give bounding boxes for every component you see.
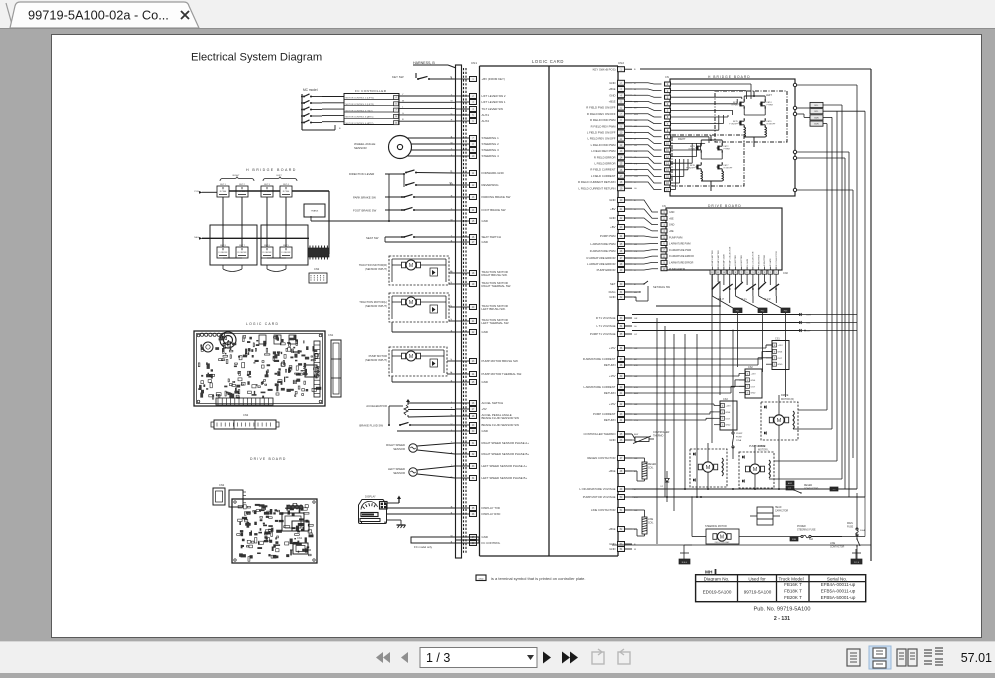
- svg-text:GND: GND: [669, 224, 675, 227]
- svg-text:3: 3: [722, 412, 723, 414]
- svg-text:GND: GND: [609, 542, 615, 546]
- svg-text:M: M: [409, 354, 414, 360]
- svg-text:SET/DIAG SW: SET/DIAG SW: [653, 285, 671, 289]
- CN2 terminal - R ARMATURE CURRENT: [618, 357, 625, 362]
- CN1 terminal 24 - PUMP MOTOR THERMAL SW.: [455, 373, 470, 375]
- CN2 terminal - LINE CONTACTOR: [618, 508, 625, 513]
- svg-text:R ARMATURE ERROR: R ARMATURE ERROR: [669, 255, 694, 258]
- svg-text:57.01: 57.01: [961, 651, 992, 665]
- wire CN2 to drive board PUMP PWM: [632, 236, 658, 237]
- wire wheel angle sensor phase 1: [407, 137, 455, 139]
- CN1 terminal 29 - BRAKE FLUID SENSOR SW: [455, 424, 470, 426]
- svg-text:GND: GND: [726, 425, 731, 427]
- CN1 terminal 6 - AUX2: [455, 120, 470, 122]
- svg-text:REGEN: REGEN: [804, 485, 813, 487]
- right vertical bus bundle: [826, 124, 828, 410]
- svg-text:RIGHT THERMAL SW.: RIGHT THERMAL SW.: [482, 284, 512, 288]
- svg-text:G: G: [402, 113, 404, 115]
- CN1 terminal 31 - RIGHT SPEED SENSOR PHASE A+: [455, 442, 470, 444]
- svg-text:AUX1: AUX1: [482, 113, 490, 117]
- CN2 terminal - PUMP ERROR: [618, 268, 625, 273]
- svg-text:CN2: CN2: [243, 413, 249, 417]
- wire MC model to bus: [302, 129, 335, 131]
- svg-text:CN1: CN1: [328, 333, 334, 337]
- H bridge board right outline: [670, 79, 795, 196]
- svg-text:FOOT BRAKE SW: FOOT BRAKE SW: [482, 208, 506, 212]
- svg-text:LOGIC CARD: LOGIC CARD: [532, 59, 564, 64]
- svg-text:CONTACTOR: CONTACTOR: [830, 546, 845, 549]
- svg-text:FET8: FET8: [690, 165, 696, 167]
- svg-text:NEG: NEG: [194, 237, 199, 239]
- svg-text:LEFT BRUSH SW.: LEFT BRUSH SW.: [482, 307, 506, 311]
- drive board CN2 bottom connector: [710, 270, 715, 274]
- H bridge CN internal stubs: [671, 83, 751, 85]
- svg-text:B/W: B/W: [634, 434, 639, 436]
- svg-text:F PWM: F PWM: [724, 149, 730, 151]
- logic card toroid: [220, 332, 236, 348]
- CN1 terminal 38 - FC CONTROL: [455, 542, 470, 544]
- CN2 terminal - +15V: [618, 346, 625, 351]
- svg-text:L EMITTER: L EMITTER: [735, 255, 737, 266]
- CN2 terminal - R T1 VOLTAGE: [618, 316, 625, 321]
- svg-text:MOTOR L: MOTOR L: [758, 449, 770, 452]
- svg-text:GND: GND: [479, 578, 484, 580]
- svg-text:GND: GND: [482, 219, 488, 223]
- FC controller row MOTOR CONTROL 1 (LIFT1): [344, 98, 399, 100]
- svg-text:L FIELD REV ON/OFF: L FIELD REV ON/OFF: [587, 137, 615, 141]
- svg-text:BRAKE FLUID SW: BRAKE FLUID SW: [359, 424, 383, 428]
- CN2 terminal - RETURN: [618, 363, 625, 368]
- display wire and arrow: [387, 502, 400, 504]
- svg-text:R PWM: R PWM: [689, 149, 696, 151]
- power transistor T1L: [735, 275, 737, 290]
- svg-text:DISPLAY RXD: DISPLAY RXD: [482, 512, 501, 516]
- svg-text:F ON/OFF: F ON/OFF: [282, 252, 292, 254]
- svg-text:SENSOR: SENSOR: [393, 447, 405, 451]
- FET3 FET4 symbols: [739, 102, 741, 107]
- svg-text:1: 1: [747, 393, 748, 395]
- wire CN2 to drive board +BE: [632, 227, 658, 231]
- wire wheel angle sensor phase 3: [411, 149, 455, 151]
- H bridge sub-box right half: [210, 225, 257, 265]
- CN2 terminal - R FIELD REV ON/OFF: [618, 111, 625, 116]
- svg-text:FORWARD-GND: FORWARD-GND: [482, 171, 504, 175]
- svg-text:(SENSOR INPUT): (SENSOR INPUT): [365, 267, 387, 271]
- svg-text:R EMITTER: R EMITTER: [758, 254, 760, 266]
- svg-text:SENSOR: SENSOR: [354, 146, 368, 150]
- CN1 terminal 35 - DISPLAY TXD: [455, 507, 470, 509]
- CN2 terminal - L FIELD FWD ON/OFF: [618, 130, 625, 135]
- FC model only bar: [411, 537, 479, 543]
- svg-text:L GATE: L GATE: [746, 258, 749, 266]
- CN1 terminal 13 - PARKING BRAKE SW: [455, 196, 470, 198]
- svg-text:+5V: +5V: [482, 407, 487, 411]
- drive board transformer: [282, 513, 304, 531]
- svg-text:FUSE: FUSE: [736, 437, 742, 439]
- svg-text:TRACTION MOTOR(R): TRACTION MOTOR(R): [359, 263, 387, 267]
- wire CN2 to drive board R ARMATURE PWM: [632, 250, 658, 251]
- svg-text:RIGHT: RIGHT: [233, 175, 240, 177]
- drive board pin vertical wires: [711, 267, 713, 271]
- CN1 terminal 28 - ACCEL PEDAL ANGLE BRAKE FLUID SENSOR SW: [455, 415, 470, 417]
- svg-text:CN1: CN1: [471, 61, 477, 65]
- svg-text:R FIELD ERROR: R FIELD ERROR: [594, 155, 616, 159]
- wire wheel angle sensor phase 4: [407, 155, 455, 157]
- svg-text:TILT LEVER SW: TILT LEVER SW: [482, 107, 504, 111]
- svg-text:R ARMATURE CURRENT: R ARMATURE CURRENT: [583, 357, 616, 361]
- svg-text:Diagram No.: Diagram No.: [704, 576, 730, 581]
- svg-text:MOTOR CONTROL 3 (ATT1): MOTOR CONTROL 3 (ATT1): [346, 116, 374, 119]
- svg-text:CAPACITOR: CAPACITOR: [775, 510, 789, 513]
- FET8 FET7 symbols: [696, 165, 698, 170]
- svg-text:RIGHT: RIGHT: [678, 138, 686, 141]
- CN2 terminal - PUMP MOTOR VOLTAGE: [618, 495, 625, 500]
- svg-text:SEAT SW: SEAT SW: [366, 236, 379, 240]
- svg-text:4: 4: [747, 373, 748, 375]
- rotate icons (disabled): [592, 649, 630, 664]
- svg-text:99719-5A100-02a - Co...: 99719-5A100-02a - Co...: [28, 8, 169, 23]
- svg-text:R PWM: R PWM: [220, 191, 227, 193]
- svg-text:P.O.S: P.O.S: [854, 562, 860, 564]
- CN2 terminal - GND: [618, 198, 625, 203]
- svg-text:R ARMATURE PWM: R ARMATURE PWM: [590, 249, 616, 253]
- CN1 terminal 21 - TRACTION MOTOR LEFT THERMAL SW.: [455, 320, 470, 322]
- svg-text:ACCELERATOR: ACCELERATOR: [366, 404, 387, 408]
- svg-text:L FIELD CURRENT RETURN: L FIELD CURRENT RETURN: [579, 186, 616, 190]
- svg-text:R FIELD CURRENT: R FIELD CURRENT: [590, 168, 615, 172]
- wire CN2 to drive board L ARMATURE PWM: [632, 243, 658, 246]
- svg-text:EFB5A-00011-up: EFB5A-00011-up: [821, 589, 856, 594]
- svg-text:GND: GND: [669, 211, 675, 214]
- CN2 terminal - GND: [618, 438, 625, 443]
- wire CN2 to drive board PUMP ERROR: [632, 269, 658, 270]
- svg-text:GND: GND: [609, 93, 615, 97]
- CN2 terminal - +B1E: [618, 469, 625, 474]
- svg-text:L FIELD CURRENT: L FIELD CURRENT: [591, 174, 616, 178]
- diode D2: [665, 478, 669, 482]
- CN2 terminal - GND: [618, 93, 625, 98]
- svg-text:GND: GND: [609, 547, 615, 551]
- svg-text:MOTOR (R): MOTOR (R): [781, 398, 794, 401]
- svg-text:50A: 50A: [809, 538, 814, 541]
- long bus wire row 2: [632, 496, 865, 498]
- svg-text:R ARMATURE ERROR: R ARMATURE ERROR: [586, 256, 615, 260]
- CN2 terminal - L FIELD ERROR: [618, 161, 625, 166]
- svg-text:R FIELD REV PWM: R FIELD REV PWM: [591, 124, 617, 128]
- svg-text:DRIVE BOARD: DRIVE BOARD: [708, 204, 742, 208]
- svg-text:R COLLECTOR: R COLLECTOR: [776, 251, 778, 266]
- svg-text:+B1E: +B1E: [609, 469, 616, 473]
- fuse boxes F row: [733, 308, 742, 313]
- svg-text:LOGIC CARD: LOGIC CARD: [246, 322, 279, 326]
- svg-text:F ON/OFF: F ON/OFF: [219, 252, 229, 254]
- left bridge wires and inductors: [743, 96, 745, 100]
- svg-text:L COLLECTOR: L COLLECTOR: [753, 251, 755, 266]
- svg-text:2: 2: [747, 386, 748, 388]
- FET1 FET2 symbols: [696, 146, 698, 151]
- svg-text:L FIELD FWD ON/OFF: L FIELD FWD ON/OFF: [587, 131, 616, 135]
- wire CN2 to drive board R ARMATURE ERROR: [632, 256, 658, 258]
- svg-text:1: 1: [722, 425, 723, 427]
- svg-text:MOTOR CONTROL 2 (LIFT2): MOTOR CONTROL 2 (LIFT2): [346, 104, 375, 106]
- CN2 terminal - R FIELD REV PWM: [618, 124, 625, 129]
- svg-text:LEFT SPEED SENSOR PHASE B+: LEFT SPEED SENSOR PHASE B+: [482, 476, 528, 480]
- CN1 terminal 18 - TRACTION MOTOR RIGHT BRUSH SW.: [455, 272, 470, 274]
- svg-text:RIGHT SPEED SENSOR PHASE A+: RIGHT SPEED SENSOR PHASE A+: [482, 441, 530, 445]
- svg-text:M: M: [777, 418, 782, 424]
- svg-text:FET1: FET1: [690, 146, 696, 148]
- svg-text:R ON/OFF: R ON/OFF: [767, 124, 776, 126]
- first page button (disabled): [376, 652, 383, 663]
- CN2 terminal - R ARMATURE PWM: [618, 249, 625, 254]
- active document tab: [10, 2, 199, 28]
- logic card PCB: [194, 331, 325, 406]
- left H bridge lower connector: [309, 273, 327, 283]
- wires below fuse boxes: [737, 313, 739, 367]
- tab close button: [181, 11, 189, 19]
- CN2 terminal - DIAG: [618, 290, 625, 295]
- leftover tab edge: [6, 3, 13, 28]
- CN1 terminal 22 - GND: [455, 331, 470, 333]
- svg-text:PUMP PWM: PUMP PWM: [669, 236, 682, 239]
- svg-text:GND: GND: [609, 438, 615, 442]
- svg-text:MOTOR CONTROL 1 (LIFT1): MOTOR CONTROL 1 (LIFT1): [346, 98, 375, 100]
- wires CN2 to H bridge CN: [632, 83, 662, 84]
- top +B wire to right frame: [640, 68, 871, 70]
- svg-text:R PWM: R PWM: [283, 191, 290, 193]
- svg-text:CN2: CN2: [783, 272, 788, 275]
- wire FC controller to CN1 row 1: [399, 95, 455, 97]
- bottom toolbar: [0, 641, 995, 673]
- CN1 terminal 19 - TRACTION MOTOR RIGHT THERMAL SW.: [455, 283, 470, 285]
- svg-text:CN2: CN2: [314, 267, 320, 271]
- CN2 terminal - R ARMATURE ERROR: [618, 256, 625, 261]
- svg-text:M: M: [409, 263, 414, 269]
- svg-text:GNS: GNS: [778, 351, 783, 353]
- svg-text:1: 1: [774, 364, 775, 366]
- svg-text:THERMO: THERMO: [653, 435, 663, 438]
- logic card IC: [305, 365, 317, 377]
- svg-text:CONTROLLER THERMO: CONTROLLER THERMO: [584, 432, 617, 436]
- svg-text:OUT: OUT: [726, 418, 731, 420]
- CN1 terminal 2 - LIFT LEVER SW 2: [455, 95, 470, 97]
- power transistor T1R: [758, 275, 760, 290]
- svg-text:PUMP ERROR: PUMP ERROR: [669, 268, 685, 271]
- svg-text:B1R: B1R: [814, 124, 819, 126]
- svg-text:4: 4: [774, 345, 775, 347]
- svg-text:RETURN: RETURN: [604, 418, 616, 422]
- facing pages layout icon: [897, 649, 917, 666]
- svg-text:PUMP MOTOR THERMAL SW.: PUMP MOTOR THERMAL SW.: [482, 372, 523, 376]
- svg-text:PUMP MOTOR BRUSH SW.: PUMP MOTOR BRUSH SW.: [482, 359, 519, 363]
- svg-text:L FIELD FWD PWM: L FIELD FWD PWM: [591, 143, 617, 147]
- svg-text:B: B: [634, 69, 636, 71]
- H bridge output circles: [793, 83, 796, 86]
- svg-text:B: B: [339, 128, 341, 130]
- drive board CN1 connector: [292, 521, 309, 531]
- svg-text:RETURN: RETURN: [604, 363, 616, 367]
- svg-text:TRANS: TRANS: [311, 210, 319, 213]
- svg-text:LIFT LEVER SW 1: LIFT LEVER SW 1: [482, 100, 506, 104]
- svg-text:+15V: +15V: [609, 402, 616, 406]
- CN1 terminal 25 - GND: [455, 381, 470, 383]
- previous page button (disabled): [401, 652, 408, 663]
- svg-text:BRAKE FLUID SENSOR SW: BRAKE FLUID SENSOR SW: [482, 416, 520, 420]
- CN2 terminal - GND: [618, 542, 625, 547]
- CN2 terminal - GND: [618, 216, 625, 221]
- svg-text:LEFT: LEFT: [766, 94, 772, 97]
- CN2 terminal - PUMP PWM: [618, 234, 625, 239]
- svg-text:FET6: FET6: [767, 121, 773, 123]
- wires +15V to current sensors: [632, 347, 766, 349]
- drive board outline: [666, 208, 782, 270]
- svg-text:H BRIDGE BOARD: H BRIDGE BOARD: [246, 168, 297, 172]
- svg-text:REVERSING: REVERSING: [482, 183, 500, 187]
- next page button: [543, 652, 551, 664]
- svg-text:RETURN: RETURN: [604, 391, 616, 395]
- svg-text:GND: GND: [482, 535, 488, 539]
- CN1 terminal 4 - TILT LEVER SW: [455, 108, 470, 110]
- svg-text:R GATE: R GATE: [769, 258, 772, 266]
- svg-text:Truck Model: Truck Model: [779, 576, 804, 581]
- svg-text:L ARMATURE ERROR: L ARMATURE ERROR: [669, 262, 694, 265]
- CN1 terminal 9 - STEERING 3: [455, 149, 470, 151]
- traction motor gnd wire: [392, 331, 455, 333]
- CN1 terminal 10 - STEERING 4: [455, 155, 470, 157]
- svg-text:225A: 225A: [736, 439, 742, 442]
- svg-text:FUSE: FUSE: [847, 527, 854, 529]
- svg-text:F PWM: F PWM: [767, 105, 773, 107]
- CN2 terminal - +B1E: [618, 99, 625, 104]
- CN1 terminal 3 - LIFT LEVER SW 1: [455, 101, 470, 103]
- CN2 terminal - L FIELD FWD PWM: [618, 142, 625, 147]
- svg-text:Used for: Used for: [748, 576, 766, 581]
- svg-text:Electrical System Diagram: Electrical System Diagram: [191, 52, 322, 64]
- svg-text:KEY SW(+B POS): KEY SW(+B POS): [593, 67, 616, 71]
- svg-text:PUMP EMITTER: PUMP EMITTER: [712, 250, 714, 266]
- svg-text:+B1E: +B1E: [609, 87, 616, 91]
- svg-text:STEERING 4: STEERING 4: [482, 154, 500, 158]
- display ground: [387, 519, 401, 521]
- svg-text:+BV (FROM KEY): +BV (FROM KEY): [482, 77, 505, 81]
- svg-text:REGEN CONTACTOR: REGEN CONTACTOR: [587, 456, 615, 460]
- svg-text:M: M: [409, 300, 414, 306]
- B1L B2L B2R B1R terminal boxes: [810, 102, 823, 107]
- svg-text:HARNESS, B: HARNESS, B: [413, 61, 435, 65]
- CN2 terminal - R FIELD CURRENT: [618, 167, 625, 172]
- CN1 terminal 12 - REVERSING: [455, 184, 470, 186]
- svg-text:Pub. No. 99719-5A100: Pub. No. 99719-5A100: [754, 607, 811, 613]
- svg-text:LEFT SPEED SENSOR PHASE A+: LEFT SPEED SENSOR PHASE A+: [482, 464, 528, 468]
- FC controller row MOTOR CONTROL 3 (ATT1): [344, 117, 399, 119]
- svg-text:MC model: MC model: [303, 88, 318, 92]
- svg-text:AUX2: AUX2: [482, 119, 490, 123]
- CN2 terminal - R FIELD FWD ON/OFF: [618, 105, 625, 110]
- svg-text:L FIELD ERROR: L FIELD ERROR: [594, 162, 615, 166]
- CN1 terminal 15 - GND: [455, 220, 470, 222]
- svg-text:F ON/OFF: F ON/OFF: [729, 124, 738, 126]
- svg-text:FB20K T: FB20K T: [784, 595, 802, 600]
- NEG terminal: [679, 559, 690, 564]
- switch common gnd wire: [388, 174, 390, 221]
- harness B bus: [456, 65, 462, 558]
- CN1 terminal 8 - STEERING 2: [455, 143, 470, 145]
- svg-text:STEERING MOTOR: STEERING MOTOR: [705, 525, 727, 528]
- svg-text:REGEN: REGEN: [648, 464, 657, 466]
- svg-text:M: M: [706, 465, 711, 471]
- svg-text:R FIELD FWD ON/OFF: R FIELD FWD ON/OFF: [586, 106, 616, 110]
- svg-text:FB16K T: FB16K T: [784, 582, 802, 587]
- svg-text:PUMP MOTOR: PUMP MOTOR: [369, 354, 387, 358]
- svg-text:B2R: B2R: [814, 117, 819, 119]
- CN2 terminal - L FIELD REV PWM: [618, 149, 625, 154]
- svg-text:R ON/OFF: R ON/OFF: [262, 252, 272, 254]
- logic card components: [274, 337, 276, 339]
- page number combo box: [420, 648, 537, 668]
- svg-text:PUMP EMITTER: PUMP EMITTER: [718, 250, 720, 266]
- CN2 terminal - L ARMATURE CURRENT: [618, 385, 625, 390]
- svg-text:+B1E: +B1E: [609, 527, 616, 531]
- CN1 terminal 27 - +5V: [455, 408, 470, 410]
- svg-text:4: 4: [722, 405, 723, 407]
- single page layout icon: [847, 649, 860, 666]
- svg-text:GND: GND: [609, 81, 615, 85]
- H bridge sub-box left half: [261, 225, 308, 265]
- T1 voltage wires: [632, 314, 799, 316]
- svg-text:Serial No.: Serial No.: [827, 576, 847, 581]
- CN2 terminal - CONTROLLER THERMO: [618, 432, 625, 437]
- mid vertical wires: [656, 318, 658, 544]
- svg-text:L ARMATURE PWM: L ARMATURE PWM: [669, 243, 691, 246]
- svg-text:GND: GND: [482, 429, 488, 433]
- transistor supply rail: [656, 305, 720, 307]
- svg-text:LINE: LINE: [648, 519, 654, 521]
- svg-text:FET4: FET4: [767, 102, 773, 104]
- CN2 terminal - +15V: [618, 374, 625, 379]
- FC controller row MOTOR CONTROL 2 (LIFT2): [344, 105, 399, 107]
- CN1 terminal 14 - FOOT BRAKE SW: [455, 209, 470, 211]
- svg-text:GY: GY: [634, 334, 638, 336]
- svg-text:RIGHT SPEED SENSOR PHASE B+: RIGHT SPEED SENSOR PHASE B+: [482, 452, 530, 456]
- CN2 terminal - RETURN: [618, 418, 625, 423]
- svg-text:L OR ARMATURE VOLTAGE: L OR ARMATURE VOLTAGE: [579, 487, 615, 491]
- svg-text:MOTOR CONTROL 3 (TILT): MOTOR CONTROL 3 (TILT): [346, 110, 373, 112]
- svg-text:OUT: OUT: [778, 358, 783, 360]
- svg-text:M: M: [753, 467, 758, 473]
- svg-text:DIAG: DIAG: [609, 290, 616, 294]
- wire CN2 to drive board +BE: [632, 209, 658, 218]
- terminal symbol note: [476, 575, 486, 581]
- svg-text:+BV: +BV: [610, 225, 615, 229]
- svg-text:FB18K T: FB18K T: [784, 589, 802, 594]
- CN1 terminal 23 - PUMP MOTOR BRUSH SW.: [455, 360, 470, 362]
- CN2 terminal - +BV: [618, 207, 625, 212]
- CN1 terminal 7 - STEERING 1: [455, 137, 470, 139]
- svg-text:HEAD: HEAD: [775, 506, 782, 509]
- svg-text:GND: GND: [609, 295, 615, 299]
- svg-text:+15V: +15V: [726, 406, 732, 408]
- svg-text:SENSOR: SENSOR: [393, 471, 405, 475]
- logic card bottom edge connector: [216, 398, 273, 405]
- svg-text:FET2: FET2: [724, 146, 730, 148]
- CN2 terminal - +B1E: [618, 527, 625, 532]
- svg-text:GND: GND: [609, 198, 615, 202]
- svg-text:+BV: +BV: [610, 207, 615, 211]
- svg-text:DIRECTION LEVER: DIRECTION LEVER: [349, 172, 374, 176]
- svg-text:R ON/OFF: R ON/OFF: [724, 168, 733, 170]
- CN2 terminal - +B1E: [618, 87, 625, 92]
- svg-text:is a terminal symbol that is p: is a terminal symbol that is printed on …: [491, 576, 586, 581]
